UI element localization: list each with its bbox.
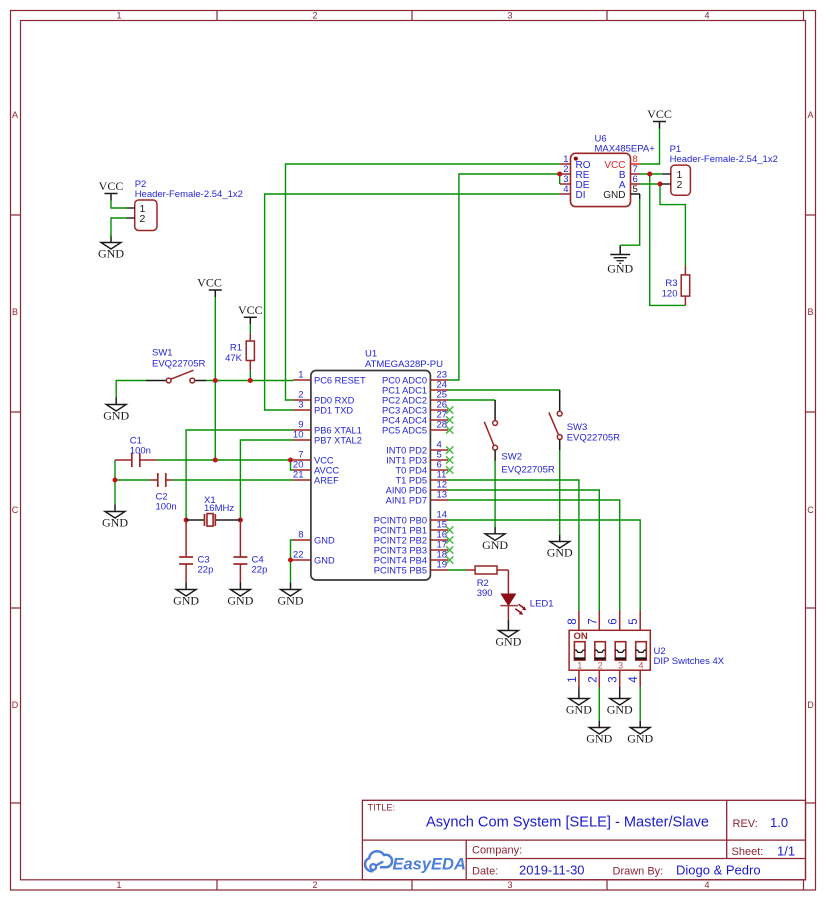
wire SW3 bottom to GND [559, 450, 561, 536]
connector P2 Header-Female-2.54_1x2 [127, 200, 158, 231]
wire C1 right to U1 pin7/VCC row [157, 459, 293, 461]
U1 pin 25 PC2 ADC2 [382, 390, 448, 406]
svg-text:EVQ22705R: EVQ22705R [501, 465, 554, 476]
svg-text:6: 6 [608, 618, 620, 624]
svg-text:ATMEGA328P-PU: ATMEGA328P-PU [365, 359, 443, 370]
wire U6 pin5 corner (black segment) [639, 194, 641, 199]
U1 pin 5 INT1 PD3 [386, 450, 453, 466]
svg-text:EVQ22705R: EVQ22705R [152, 359, 205, 370]
svg-text:PC0 ADC0: PC0 ADC0 [382, 376, 427, 386]
junction XTAL left / C3 [184, 518, 189, 523]
capacitor C3 22p [179, 520, 193, 583]
svg-text:4: 4 [704, 11, 709, 21]
U1 pin 28 PC5 ADC5 [382, 420, 453, 436]
ground GND (U2 pin2) [586, 721, 612, 746]
resistor R2 390 [466, 566, 508, 574]
svg-text:3: 3 [507, 11, 512, 21]
wire U1 pin19 to R2 [448, 569, 466, 571]
U2 switch element 1 [574, 642, 585, 660]
svg-text:2: 2 [312, 880, 317, 890]
U1 pin 11 T1 PD5 [395, 470, 448, 486]
svg-text:GND: GND [627, 732, 653, 746]
svg-text:GND: GND [482, 538, 508, 552]
wire U6 VCC flag drop to pin8 [640, 129, 660, 165]
IC U6 MAX485EPA+ body [571, 153, 631, 206]
capacitor C1 100n [115, 453, 157, 467]
wire R1 VCC flag to R1 top [249, 324, 251, 333]
svg-text:AVCC: AVCC [314, 466, 339, 476]
U1 pin 16 PCINT2 PB2 [374, 530, 454, 546]
U1 pin 12 AIN0 PD6 [386, 480, 448, 496]
svg-text:AIN1 PD7: AIN1 PD7 [386, 496, 427, 506]
svg-text:Header-Female-2.54_1x2: Header-Female-2.54_1x2 [135, 189, 243, 200]
svg-text:MAX485EPA+: MAX485EPA+ [595, 144, 656, 155]
ground GND (P2) [98, 236, 124, 261]
svg-text:T1 PD5: T1 PD5 [395, 476, 427, 486]
U1 pin 14 PCINT0 PB0 [374, 510, 448, 526]
U1 pin 13 AIN1 PD7 [386, 490, 448, 506]
U6 pin 8 VCC [604, 154, 640, 171]
svg-text:VCC: VCC [647, 107, 672, 121]
svg-text:VCC: VCC [197, 276, 222, 290]
svg-text:PD1 TXD: PD1 TXD [314, 406, 353, 416]
svg-text:REV:: REV: [733, 818, 758, 830]
U2 switch element 4 [636, 642, 647, 660]
U6 pin 1 RO [560, 154, 591, 171]
ground GND (C4) [227, 583, 253, 608]
crystal X1 16MHz [186, 514, 240, 527]
ground GND (U2 pin3) [607, 692, 633, 717]
U1 pin 9 PB6 XTAL1 [293, 420, 362, 436]
svg-text:1: 1 [567, 676, 579, 682]
U6 pin 6 A [619, 174, 640, 191]
U1 pin 27 PC4 ADC4 [382, 410, 453, 426]
svg-text:INT0 PD2: INT0 PD2 [386, 446, 427, 456]
U2 pin 1 (bottom) [567, 670, 579, 687]
svg-text:PCINT4 PB4: PCINT4 PB4 [374, 556, 427, 566]
U1 pin 10 PB7 XTAL2 [293, 430, 362, 446]
junction VCC rail / pin1 row [213, 378, 218, 383]
svg-text:28: 28 [437, 420, 448, 431]
U1 pin 23 PC0 ADC0 [382, 370, 448, 386]
capacitor C2 100n [150, 473, 172, 487]
svg-text:4: 4 [563, 184, 568, 195]
U1 pin 3 PD1 TXD [293, 400, 353, 416]
U1 pin 17 PCINT3 PB3 [374, 540, 454, 556]
ground GND (C1/C2) [102, 505, 128, 530]
frame column labels top [116, 11, 709, 21]
svg-text:Diogo & Pedro: Diogo & Pedro [676, 863, 761, 878]
power flag VCC (P2) [99, 179, 124, 201]
wire U1 pin13 to U2 pin6 [448, 500, 620, 611]
ground GND (U2 pin4) [627, 721, 653, 746]
svg-text:2: 2 [312, 11, 317, 21]
U1 pin 8 GND [293, 530, 335, 546]
wire U6 RE/DE to U1 pin23 PC0 [448, 174, 560, 380]
svg-text:C: C [12, 505, 19, 515]
wire U1 pin24 to SW3 [448, 389, 560, 391]
svg-text:GND: GND [103, 409, 129, 423]
switch SW3 EVQ22705R [549, 390, 562, 450]
svg-text:D: D [807, 700, 814, 710]
svg-text:GND: GND [603, 190, 625, 201]
svg-text:19: 19 [437, 560, 448, 571]
U1 pin 2 PD0 RXD [293, 390, 355, 406]
svg-text:5: 5 [628, 618, 640, 624]
svg-text:Drawn By:: Drawn By: [613, 866, 664, 878]
svg-text:Sheet:: Sheet: [732, 846, 764, 858]
svg-text:D: D [12, 700, 19, 710]
wire A net to R3 top [660, 184, 685, 266]
ground GND (LED1) [495, 624, 521, 649]
U6 pin 2 RE [560, 164, 590, 181]
svg-text:GND: GND [227, 594, 253, 608]
svg-text:1: 1 [116, 880, 121, 890]
svg-text:1: 1 [577, 660, 582, 670]
svg-text:GND: GND [173, 594, 199, 608]
junction VCC rail / pin7 row [213, 458, 218, 463]
svg-text:21: 21 [293, 470, 304, 481]
op-amp/IC U1 ATMEGA328P-PU body [311, 371, 431, 581]
wire VCC rail vertical to U1 pin7 row [214, 297, 216, 460]
svg-text:Asynch Com System [SELE] - Mas: Asynch Com System [SELE] - Master/Slave [426, 815, 709, 831]
svg-text:R3: R3 [665, 278, 677, 289]
junction pin8/pin22 GND [288, 558, 293, 563]
svg-text:INT1 PD3: INT1 PD3 [386, 456, 427, 466]
U2 pin 3 (bottom) [608, 670, 620, 687]
svg-text:GND: GND [495, 635, 521, 649]
svg-text:Header-Female-2.54_1x2: Header-Female-2.54_1x2 [670, 154, 778, 165]
U2 pin3 lead to GND [619, 687, 621, 692]
svg-text:22p: 22p [198, 565, 214, 576]
svg-text:VCC: VCC [99, 179, 124, 193]
wire U6 pin5 to GND [620, 198, 640, 245]
svg-text:SW3: SW3 [567, 422, 588, 433]
frame column ticks top [217, 11, 804, 21]
svg-text:U1: U1 [365, 349, 377, 360]
svg-text:GND: GND [98, 247, 124, 261]
svg-text:GND: GND [566, 703, 592, 717]
svg-text:R1: R1 [230, 343, 242, 354]
wire U1 pin10 XTAL2 to crystal right column [240, 440, 293, 520]
svg-text:Date:: Date: [472, 866, 498, 878]
wire U2 pin4 to GND [639, 687, 641, 721]
svg-text:2: 2 [598, 660, 603, 670]
junction A net at P1 pin2 [658, 182, 663, 187]
svg-text:PB6 XTAL1: PB6 XTAL1 [314, 426, 362, 436]
svg-text:2: 2 [587, 676, 599, 682]
junction pin7/pin20 [288, 458, 293, 463]
svg-text:PCINT2 PB2: PCINT2 PB2 [374, 536, 427, 546]
svg-text:4: 4 [638, 660, 643, 670]
U1 pin 26 PC3 ADC3 [382, 400, 453, 416]
U1 pin 22 GND [293, 550, 335, 566]
ground GND (U2 pin1) [566, 692, 592, 717]
EasyEDA logo [365, 851, 466, 873]
svg-text:DIP Switches 4X: DIP Switches 4X [654, 656, 725, 667]
wire U1 pin12 to U2 pin7 [448, 490, 599, 611]
power flag VCC (main rail) [197, 276, 222, 298]
svg-text:7: 7 [587, 618, 599, 624]
wire C2 right to U1 pin21 AREF [172, 479, 293, 481]
wire B net vertical to R3 bottom [650, 174, 686, 305]
svg-text:PCINT3 PB3: PCINT3 PB3 [374, 546, 427, 556]
svg-text:B: B [807, 307, 813, 317]
svg-text:3: 3 [618, 660, 623, 670]
svg-text:22p: 22p [252, 565, 268, 576]
U2 pin 2 (bottom) [587, 670, 599, 687]
svg-text:2: 2 [140, 213, 146, 225]
junction B net at P1 pin1 [647, 172, 652, 177]
U6 pin 7 B [619, 164, 640, 181]
LED LED1 [500, 570, 526, 624]
frame row ticks left [11, 215, 21, 803]
svg-text:ON: ON [574, 631, 588, 642]
svg-text:A: A [12, 110, 18, 120]
svg-text:VCC: VCC [314, 456, 334, 466]
wire U6 pin6 A to P1 pin2 [640, 183, 662, 185]
wire U6 RE to DE tie [559, 174, 561, 184]
svg-text:3: 3 [298, 400, 303, 411]
U6 pin 3 DE [560, 174, 590, 191]
svg-text:100n: 100n [130, 446, 151, 457]
U2 pin 5 (top) [628, 611, 640, 631]
svg-text:3: 3 [608, 676, 620, 682]
svg-text:B: B [12, 307, 18, 317]
U1 pin 7 VCC [293, 450, 334, 466]
connector P1 Header-Female-2.54_1x2 [662, 165, 691, 195]
U2 pin1 lead to GND [578, 687, 580, 692]
svg-text:1/1: 1/1 [777, 844, 795, 859]
junction C1/C2/GND [113, 478, 118, 483]
wire U2 pin2 to GND [598, 687, 600, 721]
svg-text:PC1 ADC1: PC1 ADC1 [382, 386, 427, 396]
svg-text:22: 22 [293, 550, 304, 561]
U1 pin 19 PCINT5 PB5 [374, 560, 448, 576]
wire U1 pin8 GND to pin22 column [291, 540, 294, 560]
wire VCC net: P2 VCC flag to P2 pin1 [111, 201, 127, 209]
svg-text:PC3 ADC3: PC3 ADC3 [382, 406, 427, 416]
svg-text:GND: GND [547, 546, 573, 560]
U2 switch element 3 [615, 642, 626, 660]
svg-text:PC5 ADC5: PC5 ADC5 [382, 426, 427, 436]
wire C2 left to GND drop [114, 480, 116, 505]
wire pin22 column down to GND [290, 560, 292, 583]
wire U1 pin22 GND stub link [291, 559, 294, 561]
IC U2 DIP Switches 4X body [569, 630, 650, 670]
svg-text:Company:: Company: [472, 845, 522, 857]
frame row labels left [12, 110, 19, 710]
svg-text:SW2: SW2 [501, 452, 522, 463]
wire SW1 right to U1 pin1 [206, 380, 293, 382]
wire SW2 bottom to GND [494, 460, 496, 528]
svg-text:VCC: VCC [238, 303, 263, 317]
earth ground GND (U6 pin5) [607, 245, 633, 275]
U1 pin 18 PCINT4 PB4 [374, 550, 454, 566]
wire U1 pin9 XTAL1 to crystal left column [186, 430, 293, 520]
ground GND (SW1) [103, 398, 129, 423]
U1 pin 21 AREF [293, 470, 339, 486]
svg-text:PCINT0 PB0: PCINT0 PB0 [374, 516, 427, 526]
svg-text:PC2 ADC2: PC2 ADC2 [382, 396, 427, 406]
power flag VCC (R1) [238, 303, 263, 325]
U6 pin1 orientation dot [574, 157, 578, 161]
wire SW1 left to GND drop [116, 381, 146, 398]
svg-text:AREF: AREF [314, 476, 339, 486]
U2 pin 6 (top) [608, 611, 620, 631]
svg-text:A: A [807, 110, 813, 120]
U1 pin 24 PC1 ADC1 [382, 380, 448, 396]
power flag VCC (U6 pin8) [647, 107, 672, 129]
svg-text:GND: GND [586, 732, 612, 746]
U1 pin 6 T0 PD4 [395, 460, 453, 476]
svg-text:EasyEDA: EasyEDA [393, 856, 466, 874]
switch SW2 EVQ22705R [484, 400, 497, 461]
svg-text:PD0 RXD: PD0 RXD [314, 396, 355, 406]
svg-text:2019-11-30: 2019-11-30 [519, 863, 585, 878]
svg-text:5: 5 [633, 184, 638, 195]
svg-text:3: 3 [507, 880, 512, 890]
svg-text:GND: GND [278, 594, 304, 608]
svg-text:DI: DI [576, 190, 586, 201]
svg-text:390: 390 [477, 588, 493, 599]
junction U6 RE/DE [557, 172, 562, 177]
U1 pin 20 AVCC [293, 460, 340, 476]
wire U1 pin11 to U2 pin8 [448, 480, 579, 611]
svg-text:PC6 RESET: PC6 RESET [314, 376, 366, 386]
svg-text:GND: GND [314, 536, 335, 546]
svg-text:13: 13 [437, 490, 448, 501]
U1 pin 1 PC6 RESET [293, 370, 366, 386]
U6 pin 4 DI [560, 184, 586, 201]
svg-text:C: C [807, 505, 814, 515]
svg-text:1.0: 1.0 [770, 815, 788, 830]
wire U1 pin14 to U2 pin5 [448, 520, 640, 611]
svg-text:8: 8 [298, 530, 303, 541]
svg-text:GND: GND [607, 703, 633, 717]
svg-text:PB7 XTAL2: PB7 XTAL2 [314, 436, 362, 446]
svg-text:GND: GND [102, 516, 128, 530]
svg-text:4: 4 [704, 880, 709, 890]
U2 pin 8 (top) [567, 611, 579, 631]
svg-text:AIN0 PD6: AIN0 PD6 [386, 486, 427, 496]
frame row labels right [807, 110, 814, 710]
svg-text:SW1: SW1 [152, 348, 173, 359]
svg-text:GND: GND [607, 262, 633, 276]
svg-text:PCINT1 PB1: PCINT1 PB1 [374, 526, 427, 536]
svg-text:8: 8 [567, 618, 579, 624]
junction R1 bottom / pin1 row [248, 378, 253, 383]
ground GND (SW2) [482, 527, 508, 552]
capacitor C4 22p [233, 520, 247, 583]
ground GND (U1 pins 8/22) [278, 583, 304, 608]
svg-text:EVQ22705R: EVQ22705R [567, 433, 620, 444]
wire U6 pin7 B to P1 pin1 [640, 173, 662, 175]
wire R1 bottom to pin1 row [249, 371, 251, 381]
U2 switch element 2 [595, 642, 606, 660]
svg-text:1: 1 [116, 11, 121, 21]
svg-text:16MHz: 16MHz [204, 503, 234, 514]
svg-text:PCINT5 PB5: PCINT5 PB5 [374, 566, 427, 576]
resistor R3 120 [681, 266, 690, 305]
svg-text:47K: 47K [225, 353, 243, 364]
U1 pin 4 INT0 PD2 [386, 440, 453, 456]
svg-text:GND: GND [314, 556, 335, 566]
svg-text:PC4 ADC4: PC4 ADC4 [382, 416, 427, 426]
resistor R1 47K [246, 334, 254, 371]
svg-text:120: 120 [662, 289, 678, 300]
frame column ticks bottom [217, 880, 804, 890]
title block table [362, 800, 805, 880]
U2 pin 4 (bottom) [628, 670, 640, 687]
svg-text:2: 2 [677, 179, 683, 191]
wire U6 DI to U1 pin3 TXD [265, 194, 560, 410]
wire GND net: P2 pin2 to GND [111, 218, 127, 238]
frame column labels bottom [116, 880, 709, 890]
wire U1 pin20 AVCC to pin7 junction [291, 460, 294, 470]
junction XTAL right / C4 [238, 518, 243, 523]
svg-text:10: 10 [293, 430, 304, 441]
svg-text:100n: 100n [156, 502, 177, 513]
ground GND (SW3) [547, 535, 573, 560]
wire U6 RO to U1 pin2 RXD [286, 164, 561, 400]
U1 pin 15 PCINT1 PB1 [374, 520, 454, 536]
wire U1 pin25 to SW2 [448, 399, 495, 401]
U6 pin 5 GND [603, 184, 640, 201]
U2 pin 7 (top) [587, 611, 599, 631]
svg-text:LED1: LED1 [530, 599, 554, 610]
ground GND (C3) [173, 583, 199, 608]
switch SW1 EVQ22705R [146, 370, 206, 383]
frame row ticks right [806, 215, 816, 803]
svg-text:4: 4 [628, 676, 640, 683]
wire C2 left lead link [115, 479, 151, 481]
wire C1 left down to C2 row [114, 460, 116, 480]
svg-text:1: 1 [298, 370, 303, 381]
svg-text:T0 PD4: T0 PD4 [395, 466, 427, 476]
svg-text:TITLE:: TITLE: [368, 803, 396, 813]
